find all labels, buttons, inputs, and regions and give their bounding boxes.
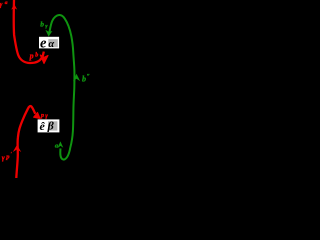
svg-text:ê: ê (40, 119, 46, 133)
svg-text:e: e (40, 36, 47, 52)
node red mid arrowhead up (bottom-left) (13, 145, 21, 152)
svg-text:γ: γ (0, 1, 3, 9)
wire red curve top (from top edge sweeping right to below box) (14, 0, 44, 63)
wire red curve bottom (from bottom edge up, arc over to e_beta box) (16, 106, 35, 178)
wire green long curve (arc over e_alpha, down right side, hook to e_beta) (49, 15, 74, 160)
node red mid arrowhead up (top-left) (11, 4, 17, 10)
node green mid arrowhead up (right branch) (73, 74, 80, 81)
svg-text:″: ″ (87, 74, 90, 80)
svg-text:p: p (5, 154, 10, 161)
svg-text:γ: γ (2, 154, 5, 162)
svg-text:b: b (82, 75, 86, 84)
svg-text:β: β (47, 118, 55, 132)
background (0, 0, 97, 178)
box e_beta (with hat) (38, 118, 60, 133)
node red end arrowhead down (below e_alpha box) (40, 55, 48, 64)
node green arrowhead down onto e_alpha box top (45, 30, 52, 37)
svg-text:α: α (48, 39, 54, 50)
svg-text:b: b (40, 19, 44, 28)
svg-text:p: p (29, 52, 34, 61)
svg-text:a: a (5, 0, 8, 6)
box e_alpha (39, 36, 59, 52)
node red end arrowhead down-right (onto e_beta box corner) (34, 113, 40, 119)
svg-text:p: p (40, 112, 45, 119)
svg-text:b: b (35, 52, 38, 58)
node green end arrowhead up (hook toward e_beta box) (57, 141, 63, 148)
